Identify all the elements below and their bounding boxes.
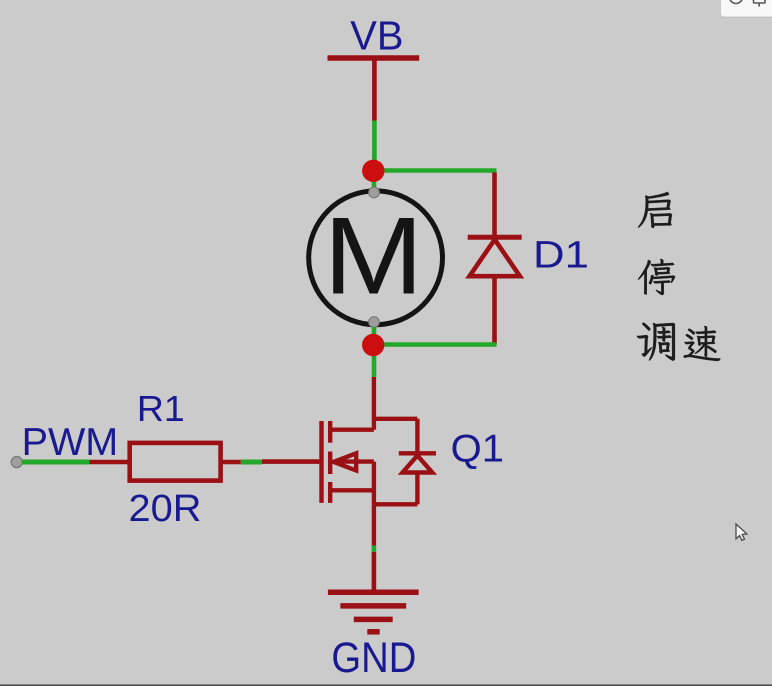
svg-text:Q1: Q1 [451, 427, 504, 470]
svg-text:VB: VB [350, 12, 403, 59]
svg-text:M: M [323, 195, 423, 317]
svg-text:D1: D1 [533, 233, 589, 276]
svg-text:GND: GND [331, 633, 416, 681]
svg-text:R1: R1 [137, 388, 185, 428]
svg-text:PWM: PWM [22, 420, 119, 464]
svg-text:20R: 20R [129, 488, 202, 530]
